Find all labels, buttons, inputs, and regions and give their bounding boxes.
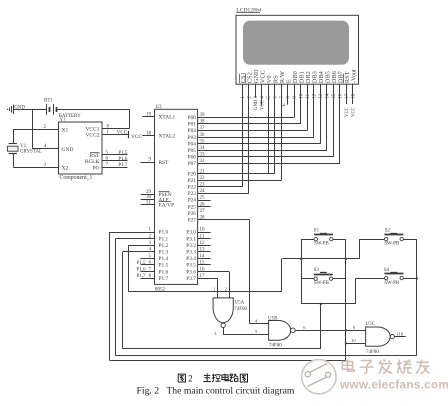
svg-text:P01: P01 [188,122,197,128]
svg-text:P3.0: P3.0 [186,230,196,236]
svg-text:P1.1: P1.1 [159,236,169,242]
svg-text:Fig. 2 The main control circ: Fig. 2 The main control circuit diagram [137,386,295,397]
svg-text:35: 35 [200,139,206,144]
svg-text:P00: P00 [188,115,197,121]
svg-text:E: E [282,103,287,106]
svg-text:SW-PB: SW-PB [384,281,400,286]
svg-text:Y1: Y1 [20,144,27,149]
svg-text:16: 16 [200,267,206,272]
svg-text:25: 25 [200,196,206,201]
svg-text:P1.5: P1.5 [118,151,128,156]
svg-text:17: 17 [345,93,350,98]
svg-text:34: 34 [200,146,206,151]
svg-text:U5B: U5B [268,317,278,322]
svg-text:P1.0: P1.0 [159,230,169,236]
svg-text:P3.4: P3.4 [186,256,196,262]
svg-text:10: 10 [200,228,206,233]
svg-text:14: 14 [326,93,331,98]
svg-text:P27: P27 [188,218,197,224]
svg-text:13: 13 [200,248,206,253]
svg-text:P21: P21 [188,178,197,184]
svg-text:17: 17 [200,274,206,279]
svg-text:Component_1: Component_1 [60,175,93,181]
svg-text:15: 15 [200,261,206,266]
svg-text:10: 10 [300,93,305,98]
svg-text:8052: 8052 [155,288,166,293]
svg-text:2: 2 [188,374,193,384]
svg-text:P26: P26 [188,211,197,217]
svg-text:P1.7: P1.7 [118,163,128,168]
svg-text:S3: S3 [314,268,320,273]
svg-text:P04: P04 [188,141,197,147]
svg-text:P03: P03 [188,135,197,141]
svg-text:36: 36 [200,133,206,138]
svg-text:P1.7: P1.7 [159,276,169,282]
svg-text:P1.5: P1.5 [159,263,169,269]
svg-text:27: 27 [200,209,206,214]
svg-text:P23: P23 [188,191,197,197]
svg-text:13: 13 [319,93,324,98]
svg-text:P22: P22 [188,185,197,191]
svg-text:SW-PB: SW-PB [314,242,330,247]
svg-text:GND: GND [62,147,74,153]
svg-text:14: 14 [200,254,206,259]
svg-text:EA/VP: EA/VP [159,203,175,209]
svg-text:P25: P25 [188,204,197,210]
svg-text:22: 22 [200,176,206,181]
svg-text:12: 12 [313,93,318,98]
svg-text:P05: P05 [188,148,197,154]
svg-text:26: 26 [200,202,206,207]
svg-text:15: 15 [332,93,337,98]
svg-text:VCC: VCC [117,130,128,135]
svg-text:P1.6: P1.6 [136,268,146,273]
svg-text:P3.7: P3.7 [186,276,196,282]
svg-text:P3.6: P3.6 [186,269,196,275]
svg-text:PO: PO [92,165,99,171]
svg-text:P1.6: P1.6 [159,269,169,275]
svg-text:18: 18 [352,93,357,98]
svg-text:32: 32 [200,159,206,164]
svg-text:RST: RST [89,153,100,159]
svg-text:VCC2: VCC2 [85,133,99,139]
svg-text:VCC: VCC [352,107,357,117]
svg-text:18: 18 [146,131,152,136]
svg-text:XTAL2: XTAL2 [159,134,176,140]
svg-text:XTAL1: XTAL1 [159,115,176,121]
svg-text:U5A: U5A [235,300,245,305]
svg-text:33: 33 [200,153,206,158]
svg-text:P1.6: P1.6 [118,157,128,162]
svg-text:28: 28 [200,216,206,221]
svg-text:12: 12 [200,241,206,246]
svg-text:VCC: VCC [345,107,350,117]
svg-text:11: 11 [306,93,311,98]
svg-text:P1.2: P1.2 [159,243,169,249]
svg-text:19: 19 [146,112,152,117]
svg-text:S1: S1 [314,228,320,233]
svg-text:39: 39 [200,113,206,118]
svg-text:P1.3: P1.3 [159,250,169,256]
svg-text:74F00: 74F00 [366,350,379,355]
svg-text:P1.5: P1.5 [136,261,146,266]
svg-text:X2: X2 [62,165,69,171]
svg-text:P1.4: P1.4 [159,256,169,262]
svg-text:31: 31 [146,200,152,205]
svg-text:21: 21 [200,169,206,174]
svg-text:P1.7: P1.7 [136,274,146,279]
svg-text:BT1: BT1 [44,98,53,103]
svg-text:X1: X1 [62,127,69,133]
svg-text:LCD12864: LCD12864 [236,8,261,14]
svg-text:P3.3: P3.3 [186,250,196,256]
svg-text:-Vout: -Vout [350,69,357,83]
svg-text:P02: P02 [188,128,197,134]
svg-text:74F00: 74F00 [269,344,282,349]
svg-text:23: 23 [200,183,206,188]
svg-text:24: 24 [200,189,206,194]
svg-text:P20: P20 [188,171,197,177]
svg-text:I18: I18 [397,331,404,336]
svg-text:BCLK: BCLK [85,159,100,165]
svg-text:VCC: VCC [131,134,142,140]
svg-text:38: 38 [200,120,206,125]
svg-text:2: 2 [225,286,227,291]
svg-text:P06: P06 [188,155,197,161]
svg-text:16: 16 [339,93,344,98]
svg-text:P3.1: P3.1 [186,236,196,242]
svg-text:www.elecfans.com: www.elecfans.com [339,378,448,392]
svg-text:P3.2: P3.2 [186,243,196,249]
svg-text:VCC: VCC [261,100,266,110]
svg-text:10: 10 [351,338,356,343]
svg-text:P24: P24 [188,198,197,204]
svg-text:SW-PB: SW-PB [384,242,400,247]
svg-text:11: 11 [200,234,205,239]
svg-text:P3.5: P3.5 [186,263,196,269]
svg-text:1: 1 [213,286,215,291]
svg-text:37: 37 [200,126,206,131]
svg-text:U5C: U5C [366,322,376,327]
svg-text:CRYSTAL: CRYSTAL [20,150,42,155]
svg-text:74F00: 74F00 [234,307,247,312]
svg-text:Y?: Y? [60,118,67,123]
svg-text:GND: GND [254,99,259,110]
svg-text:U3: U3 [156,105,163,110]
svg-text:P07: P07 [188,161,197,167]
svg-text:BATTERY: BATTERY [59,114,82,119]
svg-text:RST: RST [159,160,170,166]
svg-text:GND: GND [14,106,25,111]
svg-text:S4: S4 [384,268,390,273]
svg-text:S2: S2 [385,228,391,233]
svg-text:SW-PB: SW-PB [314,281,330,286]
